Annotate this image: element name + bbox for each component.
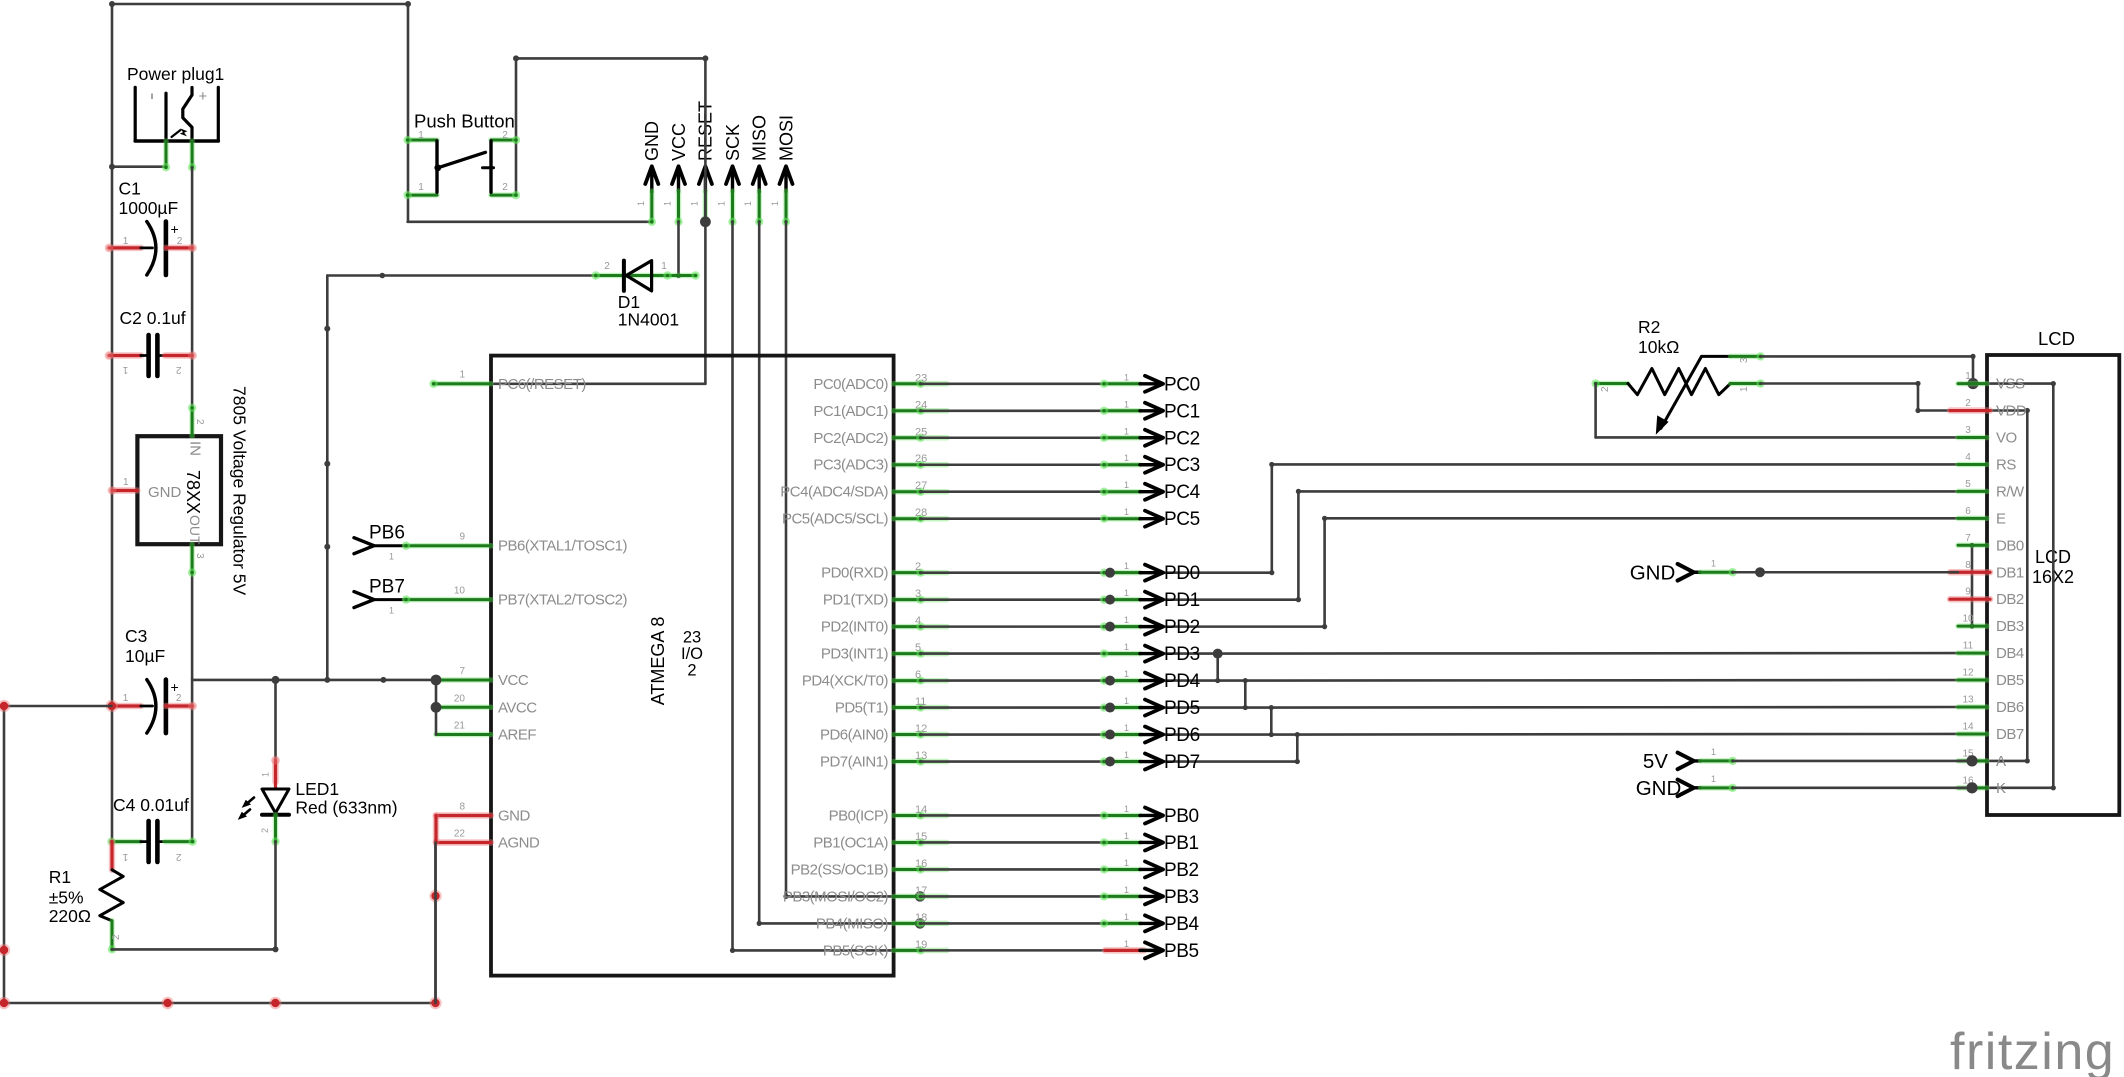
svg-text:1N4001: 1N4001: [618, 310, 679, 330]
svg-text:1000µF: 1000µF: [119, 198, 179, 218]
svg-text:3: 3: [1739, 357, 1750, 363]
svg-text:PB2(SS/OC1B): PB2(SS/OC1B): [791, 861, 889, 878]
pin 17 PB3(MOSI/OC2): [783, 885, 947, 906]
svg-text:PB5(SCK): PB5(SCK): [823, 942, 889, 959]
svg-text:LED1: LED1: [295, 779, 339, 799]
net label 5V: [1643, 747, 1737, 773]
diode D1 1N4001: [592, 261, 700, 330]
power plug Power plug1: [127, 64, 224, 172]
svg-text:PC3(ADC3): PC3(ADC3): [813, 457, 888, 474]
pin 12 PD6(AIN0): [820, 723, 947, 744]
wire PD0 to LCD RS: [921, 571, 1272, 574]
svg-text:LCD: LCD: [2038, 328, 2075, 349]
svg-text:PD5(T1): PD5(T1): [835, 700, 889, 717]
svg-text:PB5: PB5: [1164, 941, 1199, 962]
net label PC0: [1100, 372, 1200, 395]
svg-text:K: K: [1996, 780, 2006, 797]
svg-text:1: 1: [1965, 371, 1971, 382]
svg-text:1: 1: [636, 201, 646, 206]
wire push button top link: [516, 57, 705, 60]
svg-text:PD5: PD5: [1164, 698, 1200, 719]
svg-text:MOSI: MOSI: [776, 115, 796, 161]
pin 2 PD0(RXD): [821, 561, 947, 582]
pin 1 GND: [112, 487, 137, 494]
net label PD3: [1100, 642, 1200, 665]
svg-text:5: 5: [915, 642, 921, 654]
svg-text:22: 22: [454, 829, 466, 840]
LCD pin 11 DB4: [1958, 641, 2024, 663]
svg-text:PD4: PD4: [1164, 671, 1201, 692]
net label GND: [1630, 558, 1737, 584]
svg-text:PC1(ADC1): PC1(ADC1): [813, 403, 888, 420]
wire VDD to A inside LCD: [2026, 411, 2029, 761]
svg-text:1: 1: [122, 851, 128, 862]
svg-text:PD7: PD7: [1164, 752, 1200, 773]
svg-text:PD4(XCK/T0): PD4(XCK/T0): [802, 673, 889, 690]
svg-text:1: 1: [123, 693, 129, 704]
junction RESET header: [700, 216, 711, 227]
svg-text:78XX: 78XX: [183, 470, 203, 514]
svg-text:1: 1: [1124, 588, 1129, 598]
svg-text:Power plug1: Power plug1: [127, 64, 224, 84]
svg-text:PB3: PB3: [1164, 887, 1199, 908]
svg-text:5: 5: [1965, 479, 1971, 490]
svg-text:13: 13: [1962, 695, 1974, 706]
svg-text:1: 1: [389, 606, 394, 616]
net label PD0: [1100, 561, 1200, 584]
pin 24 PC1(ADC1): [813, 399, 947, 420]
svg-text:1: 1: [1124, 507, 1129, 517]
wire GND-AGND column to bottom rail: [433, 816, 440, 843]
svg-text:AGND: AGND: [498, 835, 540, 852]
svg-text:Red (633nm): Red (633nm): [295, 798, 397, 818]
svg-text:3: 3: [194, 553, 205, 559]
svg-text:PC5(ADC5/SCL): PC5(ADC5/SCL): [782, 511, 889, 528]
svg-text:VO: VO: [1996, 430, 2017, 447]
LED LED1 red: [112, 680, 398, 953]
svg-text:VCC: VCC: [669, 123, 689, 161]
svg-text:PD1: PD1: [1164, 590, 1200, 611]
net label PB7: [354, 577, 406, 616]
svg-text:1: 1: [1124, 426, 1129, 436]
svg-text:DB0: DB0: [1996, 537, 2024, 554]
svg-text:PB7: PB7: [369, 577, 405, 598]
pin 4 PD2(INT0): [821, 615, 947, 636]
push button S1: [403, 111, 520, 200]
pin 18 PB4(MISO): [816, 912, 947, 933]
pin 27 PC4(ADC4/SDA): [780, 480, 947, 501]
LCD pin 14 DB7: [1958, 721, 2024, 743]
LCD module: [1987, 328, 2119, 815]
junction PB3: [915, 891, 925, 901]
svg-text:AREF: AREF: [498, 727, 536, 744]
wire PD2 to LCD E: [921, 625, 1325, 628]
svg-text:1: 1: [770, 201, 780, 206]
svg-text:2: 2: [604, 261, 610, 272]
svg-text:1: 1: [1124, 399, 1129, 409]
svg-text:3: 3: [1965, 425, 1971, 436]
svg-text:fritzing: fritzing: [1950, 1023, 2115, 1077]
pin 1: [163, 141, 169, 167]
svg-text:2: 2: [1600, 386, 1611, 392]
wire R2 pin1 to LCD VDD: [1761, 382, 1918, 385]
svg-text:10kΩ: 10kΩ: [1638, 337, 1679, 357]
svg-text:PD7(AIN1): PD7(AIN1): [820, 754, 889, 771]
svg-text:DB2: DB2: [1996, 591, 2024, 608]
svg-text:1: 1: [1739, 386, 1750, 392]
net label PB2: [1100, 858, 1199, 881]
net label PC2: [1100, 426, 1200, 449]
net label PD5: [1100, 696, 1200, 719]
svg-text:1: 1: [1124, 885, 1129, 895]
header pin MISO: [743, 115, 769, 226]
svg-text:1: 1: [1124, 669, 1129, 679]
net label PD6: [1100, 723, 1200, 746]
svg-text:20: 20: [454, 693, 466, 704]
pin 26 PC3(ADC3): [813, 453, 947, 474]
wire top rail: [112, 3, 408, 6]
net label PC4: [1100, 480, 1201, 503]
svg-text:2: 2: [177, 236, 183, 247]
wire VCC-AVCC-AREF column: [435, 680, 438, 735]
svg-text:SCK: SCK: [723, 124, 743, 161]
svg-text:PD2(INT0): PD2(INT0): [821, 619, 889, 636]
svg-text:VDD: VDD: [1996, 403, 2027, 420]
svg-text:±5%: ±5%: [49, 888, 84, 908]
wire LED cathode down and left to R1: [274, 842, 277, 950]
LCD pin 6 E: [1958, 506, 2006, 528]
wire 5V rail (7805 OUT to VCC): [192, 679, 436, 682]
svg-text:1: 1: [1124, 480, 1129, 490]
header pin GND: [636, 121, 662, 226]
header pin VCC: [663, 123, 689, 226]
pin 13 PD7(AIN1): [820, 750, 947, 771]
pin 8 GND: [436, 802, 531, 825]
svg-text:1: 1: [1124, 831, 1129, 841]
wire PB3 pin to label: [920, 895, 1105, 898]
svg-text:VCC: VCC: [498, 672, 529, 689]
wire PD1 to LCD R/W: [921, 598, 1299, 601]
wire plug minus to left rail: [112, 165, 166, 168]
wire PD6 to LCD DB7: [921, 733, 1298, 736]
svg-text:AVCC: AVCC: [498, 699, 537, 716]
svg-text:PD3(INT1): PD3(INT1): [821, 646, 889, 663]
pin 22 AGND: [436, 829, 540, 852]
svg-text:C3: C3: [125, 626, 147, 646]
wire GND to DB1: [1733, 571, 1958, 574]
svg-text:MISO: MISO: [750, 115, 770, 161]
svg-text:DB5: DB5: [1996, 672, 2024, 689]
svg-text:PC1: PC1: [1164, 401, 1200, 422]
svg-text:PB0: PB0: [1164, 806, 1199, 827]
net label PC5: [1100, 507, 1200, 530]
svg-text:8: 8: [1965, 560, 1971, 571]
wire PD5 to LCD DB6: [921, 706, 1272, 709]
wire PC3 pin to label: [921, 463, 1105, 466]
potentiometer R2 10k: [1591, 317, 1764, 435]
svg-text:GND: GND: [1636, 777, 1682, 800]
pin 9 PB6(XTAL1/TOSC1): [402, 532, 628, 555]
svg-text:R1: R1: [49, 867, 71, 887]
svg-text:PC5: PC5: [1164, 509, 1200, 530]
svg-text:4: 4: [915, 615, 921, 627]
svg-text:PB6: PB6: [369, 523, 405, 544]
capacitor C3 10uF: [106, 626, 197, 733]
svg-text:PB3(MOSI/OC2): PB3(MOSI/OC2): [783, 888, 889, 905]
svg-text:6: 6: [915, 669, 921, 681]
svg-text:14: 14: [1962, 721, 1974, 732]
svg-text:PB7(XTAL2/TOSC2): PB7(XTAL2/TOSC2): [498, 592, 627, 609]
svg-text:1: 1: [717, 201, 727, 206]
LCD pin 16 K: [1958, 775, 2006, 797]
svg-text:1: 1: [1124, 642, 1129, 652]
net label PB1: [1100, 831, 1199, 854]
svg-text:PC6(/RESET): PC6(/RESET): [498, 376, 586, 393]
wire MOSI vertical to PB3: [785, 222, 788, 897]
voltage regulator 7805: [108, 386, 250, 596]
svg-text:RS: RS: [1996, 456, 2016, 473]
svg-text:1: 1: [743, 201, 753, 206]
wire PB2 pin to label: [921, 868, 1105, 871]
svg-text:1: 1: [1124, 372, 1129, 382]
svg-text:1: 1: [1124, 912, 1129, 922]
svg-text:PC3: PC3: [1164, 455, 1200, 476]
LCD pin 10 DB3: [1958, 614, 2024, 636]
svg-text:PC2(ADC2): PC2(ADC2): [813, 430, 888, 447]
LCD pin 13 DB6: [1958, 695, 2024, 717]
svg-text:PD6(AIN0): PD6(AIN0): [820, 727, 889, 744]
junction PB4: [915, 918, 925, 928]
wire PD7 stub: [921, 760, 1298, 763]
LCD pin 2 VDD: [1950, 398, 2027, 420]
LCD pin 15 A: [1958, 748, 2006, 770]
wire 5V to A: [1733, 760, 1972, 763]
svg-text:C2 0.1uf: C2 0.1uf: [120, 308, 186, 328]
wire RESET vertical to PC6: [704, 58, 707, 383]
svg-text:1: 1: [1711, 558, 1716, 568]
svg-text:GND: GND: [1630, 561, 1676, 584]
net label GND: [1636, 774, 1737, 800]
svg-text:1: 1: [123, 236, 129, 247]
svg-text:5V: 5V: [1643, 750, 1668, 773]
svg-text:OUT: OUT: [187, 515, 203, 545]
svg-text:PD0: PD0: [1164, 563, 1200, 584]
wire from 5V rail down to LED: [274, 680, 277, 760]
svg-text:R/W: R/W: [1996, 483, 2025, 500]
svg-text:2: 2: [176, 693, 182, 704]
capacitor C2 0.1uf: [105, 308, 197, 376]
IC U1 ATMEGA 8: [491, 356, 894, 976]
net label PD4: [1100, 669, 1201, 692]
svg-text:1: 1: [689, 201, 699, 206]
svg-text:DB3: DB3: [1996, 618, 2024, 635]
svg-text:GND: GND: [148, 484, 182, 501]
pin 15 PB1(OC1A): [813, 831, 947, 852]
header pin RESET: [689, 101, 715, 222]
svg-text:DB4: DB4: [1996, 645, 2024, 662]
svg-text:PD3: PD3: [1164, 644, 1200, 665]
pin 14 PB0(ICP): [829, 804, 947, 825]
svg-text:PB1: PB1: [1164, 833, 1199, 854]
svg-text:R2: R2: [1638, 317, 1660, 337]
wire PB5 pin to label: [921, 949, 1105, 952]
svg-text:1: 1: [123, 477, 129, 488]
header pin MOSI: [770, 115, 796, 226]
wire R2 wiper to LCD VO: [1594, 384, 1597, 438]
wire PC6 to RESET: [434, 382, 706, 385]
wire PD3 to LCD DB4: [921, 652, 1218, 655]
svg-text:IN: IN: [187, 441, 204, 456]
svg-text:2: 2: [687, 661, 696, 679]
LCD pin 4 RS: [1958, 452, 2016, 474]
svg-text:1: 1: [122, 364, 128, 375]
svg-text:11: 11: [1963, 641, 1974, 652]
svg-text:PD6: PD6: [1164, 725, 1200, 746]
svg-text:9: 9: [459, 532, 465, 543]
net label PB6: [354, 523, 406, 562]
svg-text:220Ω: 220Ω: [49, 906, 91, 926]
wire right drop from top rail to push button rail: [407, 4, 410, 222]
svg-text:GND: GND: [498, 808, 531, 825]
wire PB1 pin to label: [921, 841, 1105, 844]
LCD pin 9 DB2: [1950, 587, 2024, 609]
pin 23 PC0(ADC0): [813, 372, 947, 393]
svg-text:A: A: [1996, 753, 2006, 770]
svg-text:2: 2: [502, 130, 508, 141]
net label PB4: [1100, 912, 1200, 935]
wire D1 cathode to reset rail: [327, 274, 595, 277]
svg-text:2: 2: [1965, 398, 1971, 409]
header pin SCK: [717, 124, 743, 226]
net label PB5: [1105, 939, 1199, 962]
wire push button bottom rail to GND header: [408, 221, 652, 224]
wire PB0 pin to label: [921, 814, 1105, 817]
pin 20 AVCC: [436, 693, 537, 716]
svg-text:E: E: [1996, 510, 2006, 527]
svg-text:1: 1: [1124, 723, 1129, 733]
wire VIN rail (plug pin2 down to 7805 IN): [191, 167, 194, 407]
svg-text:1: 1: [1124, 750, 1129, 760]
svg-text:PC0: PC0: [1164, 374, 1200, 395]
svg-text:ATMEGA 8: ATMEGA 8: [648, 617, 668, 706]
svg-text:1: 1: [1711, 747, 1716, 757]
svg-text:+: +: [199, 88, 208, 105]
net label PB0: [1100, 804, 1199, 827]
svg-text:1: 1: [459, 370, 465, 381]
svg-text:PB2: PB2: [1164, 860, 1199, 881]
net label PD7: [1100, 750, 1200, 773]
wire DB0 to DB3 hook: [1971, 545, 1974, 626]
svg-text:Push Button: Push Button: [414, 111, 515, 132]
pin 5 PD3(INT1): [821, 642, 947, 663]
svg-text:7805 Voltage Regulator 5V: 7805 Voltage Regulator 5V: [230, 386, 250, 596]
wire R2 pin3 to LCD VSS: [1761, 355, 1973, 358]
pin 11 PD5(T1): [835, 696, 947, 717]
capacitor C1 1000uF: [105, 179, 197, 276]
svg-text:PB0(ICP): PB0(ICP): [829, 807, 889, 824]
svg-text:PB1(OC1A): PB1(OC1A): [813, 834, 888, 851]
net label PC3: [1100, 453, 1200, 476]
svg-text:7: 7: [1965, 533, 1971, 544]
svg-text:PD0(RXD): PD0(RXD): [821, 565, 888, 582]
wire PC2 pin to label: [921, 436, 1105, 439]
wire MISO vertical to PB4: [758, 222, 761, 924]
junction VSS: [1967, 378, 1978, 389]
svg-text:DB1: DB1: [1996, 564, 2024, 581]
pin 6 PD4(XCK/T0): [802, 669, 947, 690]
svg-text:PD2: PD2: [1164, 617, 1200, 638]
pin 19 PB5(SCK): [823, 939, 947, 960]
LCD pin 5 R/W: [1958, 479, 2025, 501]
wire bottom-left gnd loop: [4, 705, 112, 708]
net label PB3: [1100, 885, 1199, 908]
resistor R1 220 ohm: [49, 842, 124, 954]
net label PC1: [1100, 399, 1200, 422]
LCD pin 3 VO: [1958, 425, 2017, 447]
svg-text:PB4(MISO): PB4(MISO): [816, 915, 889, 932]
svg-text:1: 1: [1711, 774, 1716, 784]
wire left rail: [111, 4, 114, 842]
svg-text:10µF: 10µF: [125, 646, 165, 666]
capacitor C4 0.01uf: [107, 795, 197, 862]
wire PC1 pin to label: [921, 409, 1105, 412]
svg-text:2: 2: [175, 364, 181, 375]
wire 7805 OUT rail down to C4: [191, 573, 194, 842]
svg-text:23: 23: [683, 628, 701, 646]
svg-text:1: 1: [418, 130, 424, 141]
svg-text:1: 1: [418, 182, 424, 193]
pin 16 PB2(SS/OC1B): [791, 858, 947, 879]
svg-text:C4 0.01uf: C4 0.01uf: [113, 795, 189, 815]
svg-text:10: 10: [454, 586, 466, 597]
svg-text:PC4(ADC4/SDA): PC4(ADC4/SDA): [780, 484, 888, 501]
svg-text:C1: C1: [119, 179, 141, 199]
wire VSS to K inside LCD: [1973, 382, 2053, 385]
svg-text:8: 8: [459, 802, 465, 813]
pin 28 PC5(ADC5/SCL): [782, 507, 947, 528]
pin 7 VCC: [436, 666, 529, 689]
svg-text:2: 2: [194, 419, 205, 425]
svg-text:1: 1: [1124, 939, 1129, 949]
svg-text:PB6(XTAL1/TOSC1): PB6(XTAL1/TOSC1): [498, 538, 627, 555]
svg-text:2: 2: [175, 851, 181, 862]
svg-text:4: 4: [1965, 452, 1971, 463]
svg-text:+: +: [171, 221, 179, 237]
pin 10 PB7(XTAL2/TOSC2): [402, 586, 628, 609]
wire PC4 pin to label: [921, 490, 1105, 493]
svg-text:1: 1: [1124, 696, 1129, 706]
svg-text:PC2: PC2: [1164, 428, 1200, 449]
LCD pin 8 DB1: [1950, 560, 2024, 582]
svg-text:1: 1: [261, 772, 271, 777]
svg-text:PC0(ADC0): PC0(ADC0): [813, 376, 888, 393]
svg-text:PD1(TXD): PD1(TXD): [823, 592, 889, 609]
svg-text:1: 1: [1124, 615, 1129, 625]
wire PC0 pin to label: [921, 382, 1105, 385]
svg-text:3: 3: [915, 588, 921, 600]
svg-text:1: 1: [1124, 804, 1129, 814]
wire GND to K: [1733, 787, 1972, 790]
svg-text:1: 1: [1124, 453, 1129, 463]
pin 25 PC2(ADC2): [813, 426, 947, 447]
svg-text:21: 21: [454, 721, 466, 732]
svg-text:VSS: VSS: [1996, 376, 2025, 393]
svg-text:1: 1: [1124, 858, 1129, 868]
pin 1 PC6(/RESET): [429, 370, 586, 393]
svg-text:1: 1: [389, 552, 394, 562]
pin 2 IN: [189, 408, 195, 436]
svg-text:PC4: PC4: [1164, 482, 1201, 503]
